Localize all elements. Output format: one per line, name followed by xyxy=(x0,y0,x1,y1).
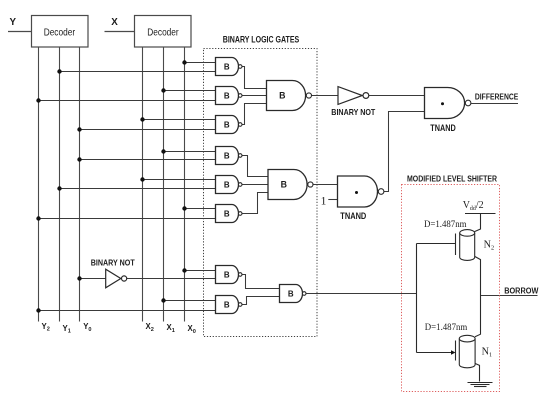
svg-text:X0: X0 xyxy=(188,324,196,335)
svg-text:BINARY NOT: BINARY NOT xyxy=(91,257,136,267)
svg-text:BINARY NOT: BINARY NOT xyxy=(331,107,376,117)
svg-text:D=1.487nm: D=1.487nm xyxy=(425,322,468,333)
svg-text:Y1: Y1 xyxy=(63,324,71,335)
svg-text:D=1.487nm: D=1.487nm xyxy=(424,219,467,230)
svg-text:Y2: Y2 xyxy=(42,322,50,333)
svg-text:BORROW: BORROW xyxy=(504,286,539,296)
svg-text:Decoder: Decoder xyxy=(44,28,76,39)
svg-text:MODIFIED LEVEL SHIFTER: MODIFIED LEVEL SHIFTER xyxy=(407,173,498,183)
svg-text:Y0: Y0 xyxy=(83,322,91,333)
svg-text:TNAND: TNAND xyxy=(340,210,366,221)
svg-text:TNAND: TNAND xyxy=(430,122,456,133)
svg-text:BINARY LOGIC GATES: BINARY LOGIC GATES xyxy=(223,34,300,45)
svg-text:N1: N1 xyxy=(482,346,493,358)
svg-text:Vdd/2: Vdd/2 xyxy=(463,200,484,212)
svg-text:X: X xyxy=(111,17,118,28)
svg-text:1: 1 xyxy=(321,195,327,207)
svg-text:N2: N2 xyxy=(484,240,495,252)
svg-text:X1: X1 xyxy=(167,323,175,334)
svg-text:Decoder: Decoder xyxy=(147,28,179,39)
svg-text:DIFFERENCE: DIFFERENCE xyxy=(475,91,519,101)
svg-text:Y: Y xyxy=(10,17,17,28)
svg-text:X2: X2 xyxy=(146,322,154,333)
